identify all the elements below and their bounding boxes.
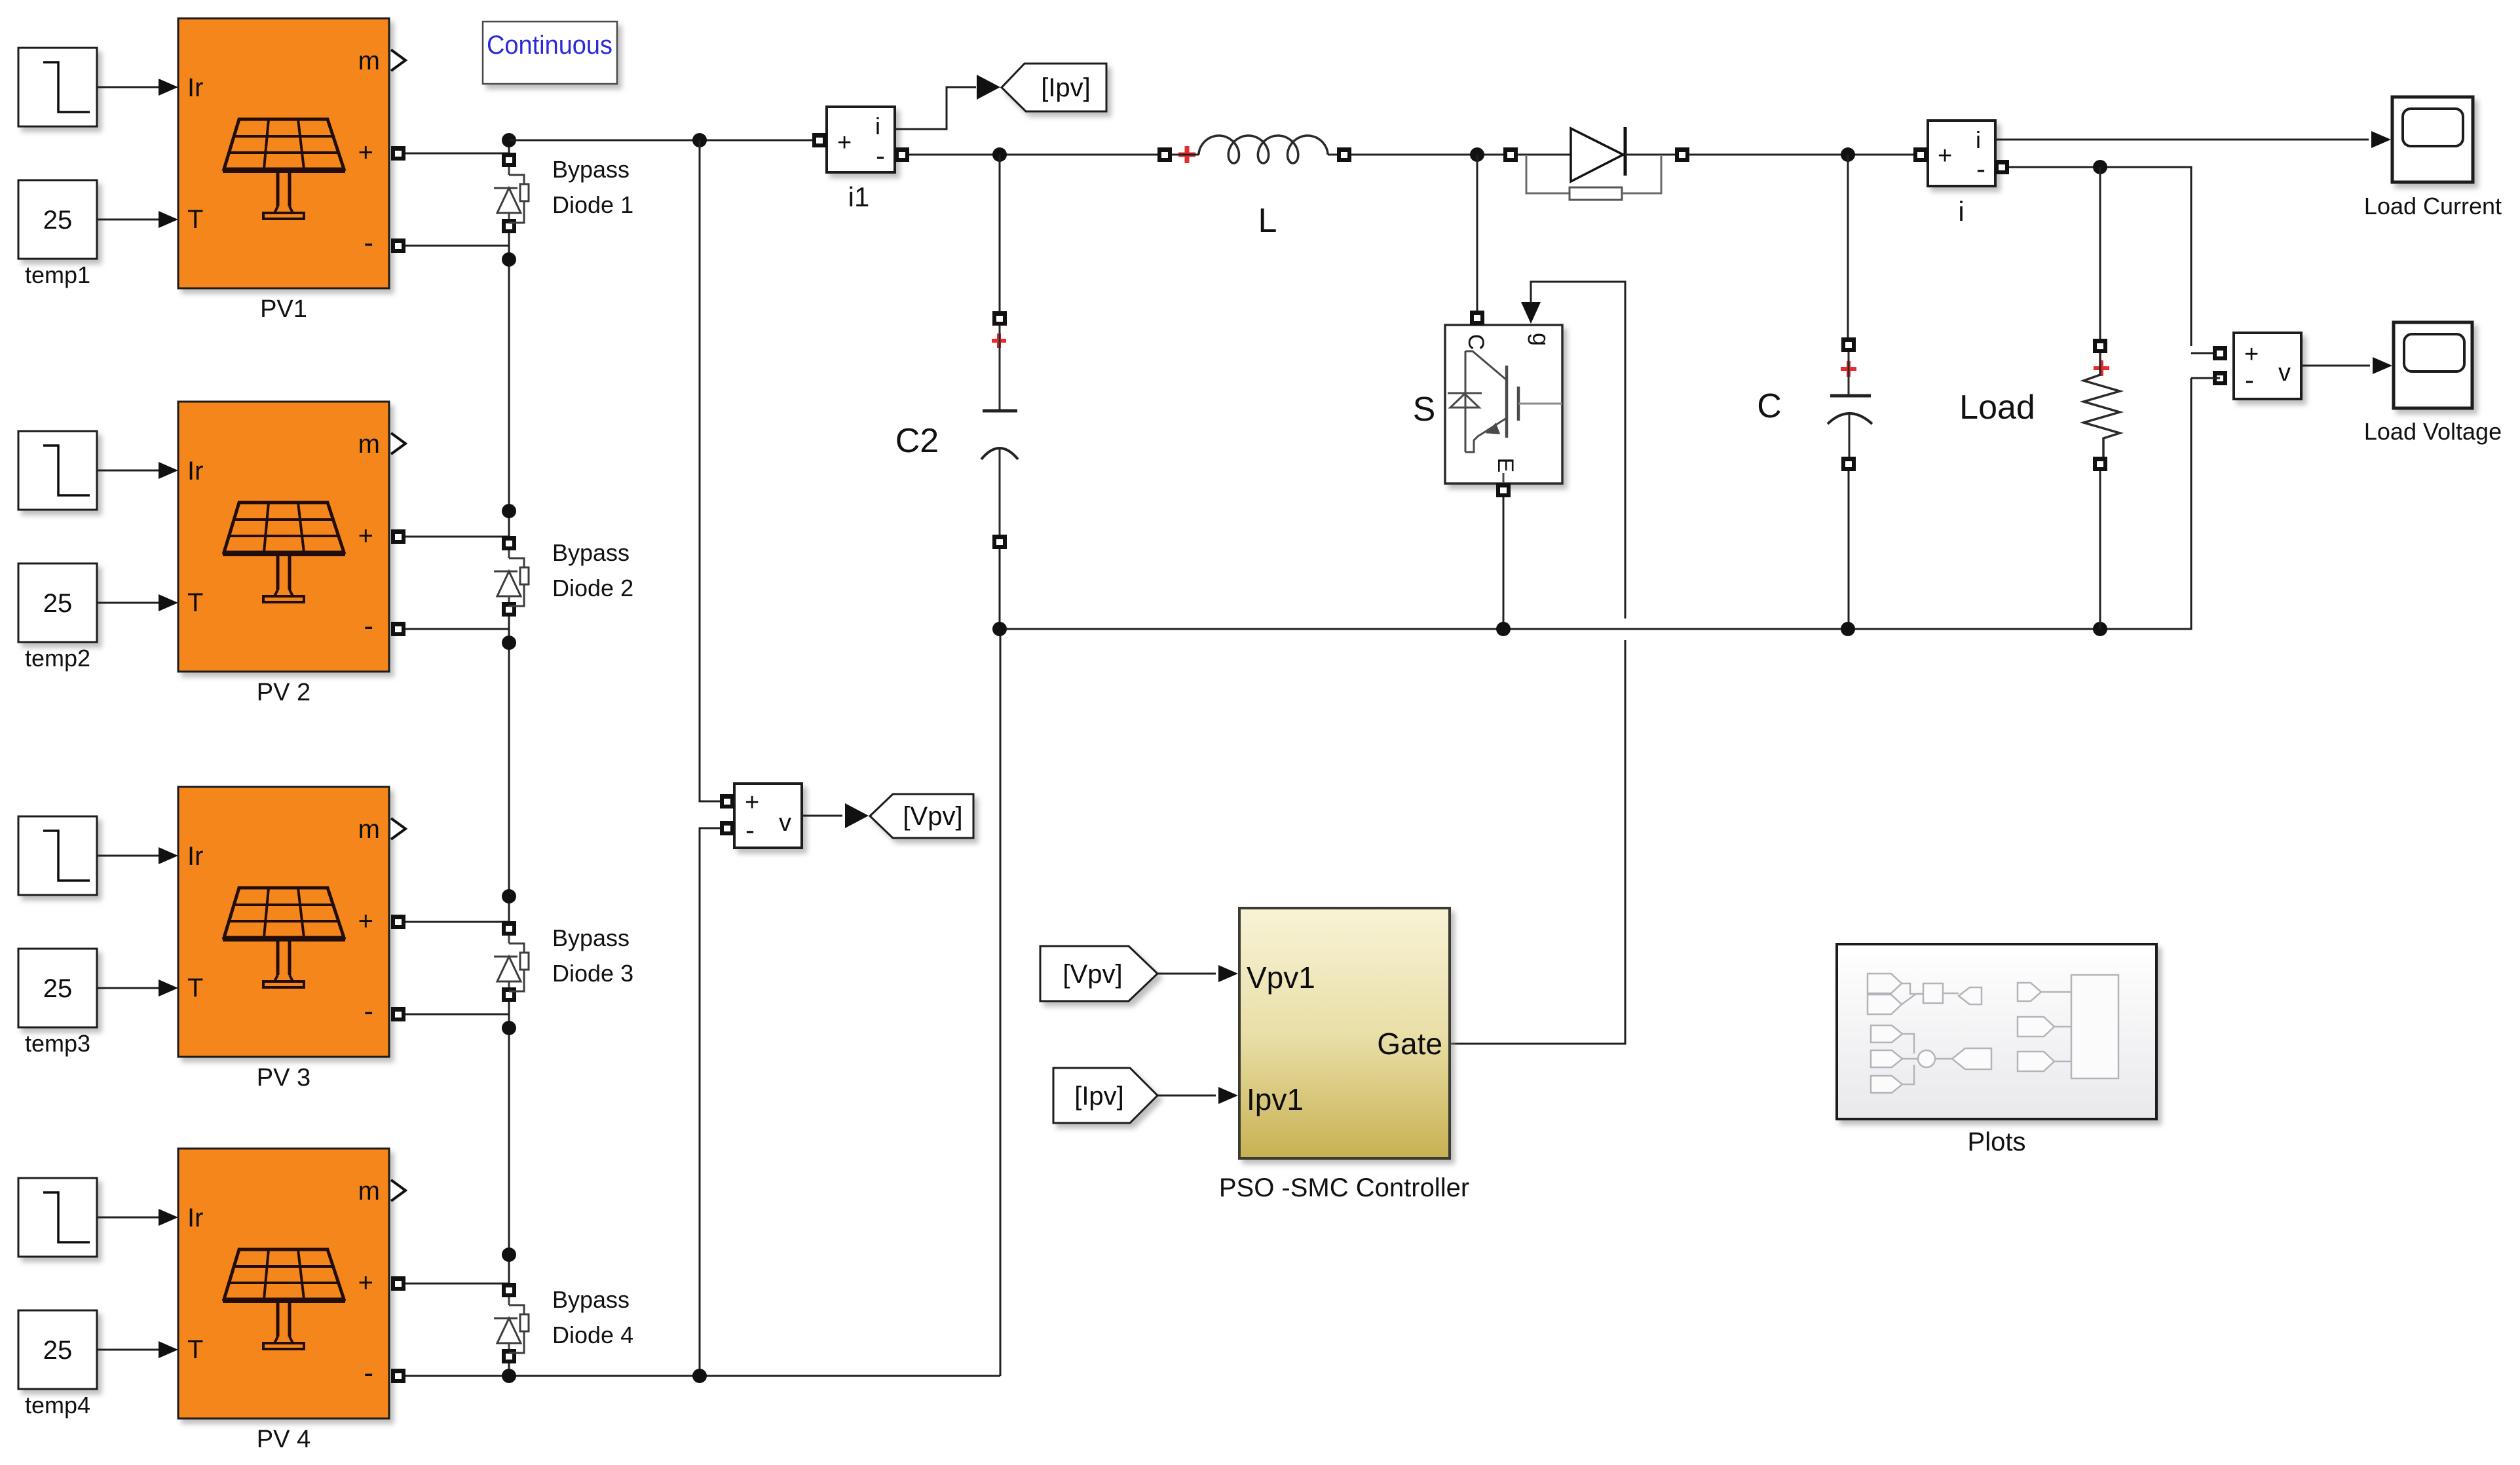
wire i- to load bus [2009, 167, 2191, 346]
svg-text:PV 4: PV 4 [257, 1426, 310, 1453]
port PV2 - terminal [391, 622, 405, 636]
wire C2 top lead [999, 155, 1001, 311]
svg-text:+: + [1938, 142, 1952, 170]
junction node Vpv- on bus [692, 1369, 707, 1383]
capacitor C2 symbol [999, 326, 1001, 409]
diode Bypass Diode 3 symbol [494, 936, 529, 991]
svg-text:Ipv1: Ipv1 [1247, 1082, 1304, 1116]
svg-text:+: + [358, 1268, 373, 1297]
wire PV2 - to string [405, 628, 509, 630]
IGBT gate arrowhead g [1521, 302, 1541, 324]
wire load bottom lead [2099, 471, 2101, 629]
port Vpv sense + terminal [720, 794, 734, 809]
scope Load Current [2392, 97, 2473, 182]
svg-text:+: + [358, 522, 373, 550]
port PV4 - terminal [391, 1369, 405, 1383]
wire gate drive path [1450, 282, 1625, 1044]
polarity mark + C2 polarity [992, 333, 1006, 348]
svg-text:v: v [2278, 359, 2291, 387]
svg-text:m: m [358, 1177, 380, 1206]
port Load + terminal [2093, 339, 2107, 353]
port Bypass Diode 1 anode [502, 219, 516, 233]
PV3 m output chevron [391, 818, 405, 839]
wire bus diode to i [1689, 154, 1913, 156]
transistor S (IGBT) [1445, 325, 1562, 484]
svg-text:m: m [358, 47, 380, 75]
from tag [Vpv] [1040, 946, 1157, 1001]
port Vpv sense - terminal [720, 821, 734, 835]
port boost diode cathode terminal [1675, 147, 1689, 162]
wire bus i1- to L [909, 154, 1157, 156]
arrowhead into Load Voltage scope [2373, 357, 2392, 374]
PV2 m output chevron [391, 433, 405, 454]
wire v - down to bus [2191, 377, 2220, 379]
svg-text:temp3: temp3 [25, 1030, 90, 1057]
wire temp2 to PV2 T [97, 602, 160, 604]
port PV4 + terminal [391, 1276, 405, 1291]
svg-text:Gate: Gate [1377, 1027, 1442, 1061]
svg-text:[Ipv]: [Ipv] [1041, 73, 1091, 102]
svg-text:+: + [745, 789, 759, 816]
wire C2 bottom lead [999, 549, 1001, 629]
port PV1 - terminal [391, 238, 405, 253]
junction node C tap [1841, 147, 1855, 162]
svg-text:PV1: PV1 [260, 295, 307, 323]
svg-text:Ir: Ir [187, 457, 203, 485]
svg-text:+: + [358, 138, 373, 167]
port i1 - terminal [895, 147, 909, 162]
wire step4 to PV4 Ir [97, 1217, 160, 1219]
wire C top lead [1847, 155, 1849, 337]
PV array block PV1 [178, 18, 389, 288]
arrowhead into PV3 Ir [159, 847, 178, 864]
diode Bypass Diode 2 symbol [494, 550, 529, 606]
port Bypass Diode 3 anode [502, 987, 516, 1002]
svg-text:25: 25 [43, 1336, 73, 1365]
port i1 + terminal [812, 133, 827, 147]
junction node C on return bus [1841, 622, 1855, 636]
port v + terminal [2213, 346, 2227, 360]
port L right terminal [1337, 147, 1351, 162]
wire bus to IGBT collector [1476, 155, 1478, 311]
port C2 + terminal [992, 311, 1007, 326]
step source block Ir2 [18, 431, 97, 510]
junction node C2 on return bus [992, 622, 1007, 636]
port C2 - terminal [992, 535, 1007, 549]
wire bottom return bus [405, 378, 2191, 1376]
wire PV series string vertical bus x=777 [508, 140, 510, 1376]
arrowhead into PV3 T [159, 980, 178, 997]
junction node below Bypass Diode 1 [502, 252, 516, 267]
svg-text:temp4: temp4 [25, 1392, 90, 1418]
wire Vpv - sense vertical to bottom bus [700, 828, 720, 1376]
scope Load Voltage [2394, 322, 2472, 408]
junction node bus-A / Vpv tap [692, 133, 707, 147]
port i - terminal [1995, 160, 2009, 174]
capacitor C symbol [1848, 352, 1850, 394]
svg-text:Vpv1: Vpv1 [1247, 961, 1315, 995]
port IGBT C terminal [1470, 311, 1484, 325]
wire step2 to PV2 Ir [97, 470, 160, 472]
svg-text:Ir: Ir [187, 842, 203, 871]
svg-text:+: + [837, 129, 852, 157]
junction node Load on return bus [2093, 622, 2107, 636]
svg-text:Load: Load [1959, 389, 2035, 427]
junction node IGBT collector tap [1470, 147, 1484, 162]
port C - terminal [1841, 457, 1856, 471]
wire C2 column to PV4 bus [1000, 628, 1002, 1376]
junction node below Bypass Diode 2 [502, 636, 516, 650]
arrowhead into PV4 T [159, 1341, 178, 1358]
svg-text:-: - [745, 814, 755, 845]
polarity mark + Load polarity [2094, 360, 2109, 376]
subsystem block PSO -SMC Controller [1239, 908, 1450, 1158]
port C + terminal [1841, 337, 1856, 352]
arrowhead into PV4 Ir [159, 1209, 178, 1226]
wire from-tag Ipv to controller [1157, 1095, 1216, 1097]
port Bypass Diode 4 anode [502, 1349, 516, 1363]
svg-text:T: T [187, 205, 203, 234]
arrowhead into PV2 Ir [159, 462, 178, 479]
port PV1 + terminal [391, 146, 405, 161]
port IGBT E terminal [1496, 483, 1511, 497]
wire bus PV+ to i1 [509, 140, 813, 142]
current measurement block i (load) [1928, 121, 1995, 186]
powergui block Continuous [483, 22, 617, 84]
PV array block PV 2 [178, 402, 389, 672]
svg-text:-: - [364, 1357, 373, 1389]
wire Vpv + sense vertical [700, 140, 720, 801]
svg-text:C: C [1757, 387, 1782, 425]
port L left terminal [1157, 147, 1172, 162]
wire PV3 - to string [405, 1014, 509, 1016]
svg-text:Diode 1: Diode 1 [552, 191, 633, 218]
arrowhead into Load Current scope [2371, 131, 2391, 148]
arrowhead into goto Ipv [977, 75, 1000, 100]
svg-text:g: g [1528, 333, 1554, 346]
junction node above Bypass Diode 3 [502, 889, 516, 904]
junction node above Bypass Diode 4 [502, 1247, 516, 1262]
wire v out to goto Vpv [802, 815, 842, 817]
port boost diode anode terminal [1503, 147, 1518, 162]
svg-text:PV 2: PV 2 [257, 679, 310, 706]
svg-text:T: T [187, 588, 203, 617]
step source block Ir1 [18, 48, 97, 126]
wire diode anode lead [1518, 154, 1571, 156]
port Load - terminal [2093, 457, 2107, 471]
svg-text:i: i [1958, 196, 1964, 227]
port v - terminal [2213, 371, 2227, 385]
svg-text:L: L [1258, 202, 1277, 240]
junction node IGBT E on return bus [1496, 622, 1511, 636]
svg-text:Diode 2: Diode 2 [552, 575, 633, 601]
wire temp4 to PV4 T [97, 1349, 160, 1351]
svg-text:i: i [1976, 126, 1981, 153]
arrowhead into PV2 T [159, 594, 178, 611]
PV array block PV 3 [178, 787, 389, 1057]
svg-text:m: m [358, 815, 380, 844]
arrowhead into controller Ipv1 [1218, 1087, 1238, 1104]
svg-text:Ir: Ir [187, 1204, 203, 1232]
diode Bypass Diode 1 symbol [494, 167, 529, 223]
junction node C2 tap [992, 147, 1007, 162]
wire from-tag Vpv to controller [1157, 973, 1216, 975]
constant block temp4 value 25 [18, 1310, 97, 1389]
wire PV3 + to string [405, 921, 509, 923]
step source block Ir4 [18, 1178, 97, 1257]
svg-text:[Vpv]: [Vpv] [903, 802, 962, 831]
port PV2 + terminal [391, 529, 405, 544]
wire L input lead [1172, 154, 1199, 156]
svg-text:Diode 4: Diode 4 [552, 1322, 633, 1348]
svg-text:i1: i1 [848, 181, 870, 212]
constant block temp3 value 25 [18, 949, 97, 1027]
constant block temp2 value 25 [18, 563, 97, 642]
wire PV1 - to string [405, 245, 509, 247]
svg-text:+: + [358, 907, 373, 936]
subsystem block Plots [1837, 944, 2156, 1119]
goto tag [Ipv] [1002, 64, 1106, 111]
wire temp1 to PV1 T [97, 219, 160, 221]
PV1 m output chevron [391, 50, 405, 71]
svg-text:v: v [779, 809, 791, 837]
PV4 m output chevron [391, 1180, 405, 1201]
svg-text:Bypass: Bypass [552, 156, 630, 183]
wire IGBT emitter to bottom bus [1503, 497, 1505, 629]
port Bypass Diode 2 anode [502, 602, 516, 617]
wire PV1 + to string [405, 153, 509, 155]
svg-text:Bypass: Bypass [552, 539, 630, 566]
svg-text:T: T [187, 1335, 203, 1364]
svg-text:i: i [875, 113, 880, 140]
wire PV4 - to string [405, 1375, 509, 1377]
svg-text:-: - [364, 227, 373, 259]
junction node below Bypass Diode 3 [502, 1021, 516, 1035]
arrowhead into controller Vpv1 [1218, 965, 1238, 982]
svg-text:T: T [187, 974, 203, 1002]
wire load top lead [2099, 167, 2101, 339]
port Bypass Diode 3 cathode [502, 921, 516, 936]
resistor Load symbol [2084, 353, 2120, 457]
svg-text:temp2: temp2 [25, 645, 90, 672]
port PV3 + terminal [391, 915, 405, 929]
svg-text:Load Voltage: Load Voltage [2364, 418, 2502, 445]
port Bypass Diode 1 cathode [502, 153, 516, 167]
port i + terminal [1913, 147, 1928, 162]
wire temp3 to PV3 T [97, 987, 160, 989]
IGBT internal symbol [1448, 351, 1562, 483]
constant block temp1 value 25 [18, 180, 97, 259]
svg-text:[Vpv]: [Vpv] [1063, 960, 1122, 989]
wire PV4 + to string [405, 1283, 509, 1285]
junction node above Bypass Diode 2 [502, 504, 516, 518]
wire to v + input [2191, 352, 2220, 354]
svg-text:Diode 3: Diode 3 [552, 960, 633, 987]
svg-text:C2: C2 [895, 422, 939, 460]
svg-text:-: - [1976, 153, 1985, 184]
voltage measurement block v (load) [2234, 333, 2301, 399]
port Bypass Diode 2 cathode [502, 536, 516, 550]
svg-text:PSO -SMC Controller: PSO -SMC Controller [1219, 1173, 1469, 1202]
wire C bottom lead [1848, 471, 1850, 629]
wire PV2 + to string [405, 536, 509, 538]
junction node above Bypass Diode 1 [502, 133, 516, 147]
svg-text:Plots: Plots [1968, 1128, 2026, 1156]
svg-text:[Ipv]: [Ipv] [1074, 1082, 1124, 1111]
voltage measurement block Vpv sense [734, 784, 802, 848]
svg-text:E: E [1493, 458, 1518, 473]
svg-text:S: S [1413, 390, 1436, 428]
wire step1 to PV1 Ir [97, 86, 160, 88]
wire step3 to PV3 Ir [97, 855, 160, 857]
svg-text:Continuous: Continuous [487, 31, 612, 60]
svg-text:-: - [364, 610, 373, 642]
arrowhead into goto Vpv [845, 803, 869, 828]
svg-text:PV 3: PV 3 [257, 1064, 310, 1092]
wire v out to Load Voltage scope [2301, 365, 2370, 367]
svg-text:25: 25 [43, 974, 73, 1003]
from tag [Ipv] [1053, 1068, 1157, 1123]
goto tag [Vpv] [870, 794, 973, 838]
diode Bypass Diode 4 symbol [494, 1297, 529, 1353]
svg-text:25: 25 [43, 589, 73, 618]
svg-text:temp1: temp1 [25, 261, 90, 288]
arrowhead into PV1 T [159, 211, 178, 228]
svg-text:Bypass: Bypass [552, 1286, 630, 1313]
svg-text:-: - [876, 140, 885, 171]
wire i signal to Load Current scope [1995, 139, 2369, 141]
svg-text:Ir: Ir [187, 73, 203, 102]
junction node diode4 anode on bus [502, 1369, 516, 1383]
polarity mark + L input [1178, 146, 1195, 163]
svg-text:-: - [364, 995, 373, 1027]
current measurement block i1 [827, 107, 895, 172]
polarity mark + C polarity [1841, 361, 1856, 377]
PV array block PV 4 [178, 1149, 389, 1418]
resistor diode snubber [1526, 156, 1661, 200]
wire bus L to diode [1351, 154, 1503, 156]
step source block Ir3 [18, 816, 97, 895]
svg-text:25: 25 [43, 206, 73, 235]
port Bypass Diode 4 cathode [502, 1283, 516, 1297]
wire i1 signal to goto Ipv [895, 87, 976, 129]
svg-text:Bypass: Bypass [552, 924, 630, 951]
port PV3 - terminal [391, 1007, 405, 1021]
svg-text:C: C [1463, 334, 1488, 351]
wire diode cathode lead [1625, 154, 1675, 156]
svg-text:-: - [2245, 364, 2254, 395]
arrowhead into PV1 Ir [159, 79, 178, 96]
svg-text:Load Current: Load Current [2364, 193, 2502, 219]
svg-text:m: m [358, 430, 380, 459]
junction node load tap [2093, 160, 2107, 174]
inductor L symbol [1199, 136, 1328, 163]
diode boost diode symbol [1571, 128, 1623, 181]
